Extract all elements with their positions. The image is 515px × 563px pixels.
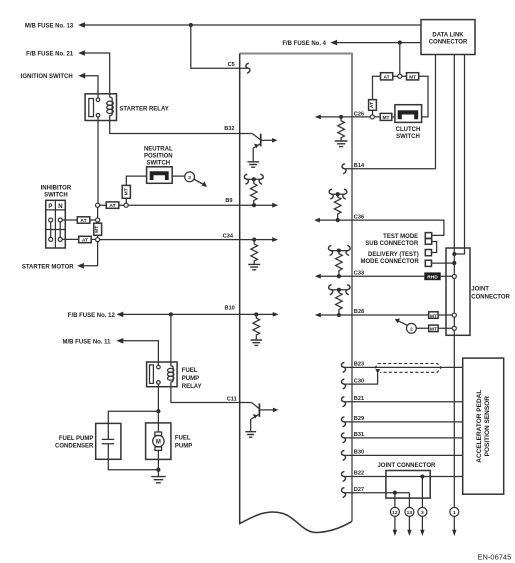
- arrow C34 into ECM: [254, 239, 272, 241]
- svg-text:M/B FUSE No. 13: M/B FUSE No. 13: [25, 23, 74, 29]
- junction on B9 wire: [252, 203, 256, 207]
- wire B14 from ECM to DLC: [344, 168, 436, 170]
- wire C26 from ECM to clutch switch: [352, 116, 395, 118]
- starter relay box: [85, 94, 116, 121]
- svg-text:TEST MODE: TEST MODE: [383, 234, 418, 240]
- internal rail hooks (C33): [328, 246, 332, 256]
- AT box (vertical): [369, 100, 377, 111]
- svg-text:MT: MT: [94, 226, 100, 233]
- DLC pin wire to B14: [435, 55, 437, 169]
- svg-text:SWITCH: SWITCH: [396, 134, 420, 140]
- starter relay pin bottom: [96, 114, 100, 118]
- resistor (B9 pull-up): [251, 179, 258, 205]
- AT box on B9 wire: [106, 202, 119, 208]
- wire D27 junction to circle 12: [394, 493, 396, 508]
- condenser capacitor: [102, 423, 115, 459]
- trunk node circle (C34): [96, 238, 100, 242]
- svg-text:MT: MT: [430, 313, 437, 319]
- arrow IGNITION SWITCH: [78, 73, 85, 79]
- resistor (C26 pull-down): [338, 117, 345, 141]
- junction on rail (B9): [252, 177, 256, 181]
- arrow M/B FUSE No.11: [117, 338, 124, 344]
- wire fuel pump bottom to ground: [157, 459, 159, 476]
- MT box (circled 2): [429, 325, 438, 332]
- wire B30 to sensor: [343, 454, 462, 456]
- node circle between AT and MT: [398, 74, 402, 78]
- wire M/B FUSE No.11 to fuel pump relay: [123, 341, 158, 365]
- node circle on B9 wire below MT: [124, 203, 128, 207]
- wire trunk down to starter motor: [84, 242, 98, 266]
- svg-text:B22: B22: [354, 471, 364, 477]
- svg-text:B30: B30: [354, 450, 364, 456]
- svg-text:MODE CONNECTOR: MODE CONNECTOR: [360, 259, 419, 265]
- MT box (C26 wire): [380, 113, 392, 120]
- shield drain arrow: [375, 369, 380, 374]
- arrow C36 (points left): [314, 218, 320, 223]
- junction D27 in joint connector: [393, 491, 397, 495]
- joint connector box (right): [446, 248, 470, 335]
- circled 2 (B28 ref): [407, 323, 417, 333]
- junction on B28 wire: [337, 313, 341, 317]
- wire B31 to sensor: [343, 437, 462, 439]
- svg-text:DATA LINK: DATA LINK: [432, 32, 464, 38]
- svg-text:AT: AT: [384, 75, 390, 81]
- wire fuse12 junction to fuel pump relay coil: [170, 314, 172, 362]
- svg-text:B9: B9: [225, 198, 232, 204]
- svg-text:NEUTRAL: NEUTRAL: [144, 146, 173, 152]
- wire N bottom to AT box: [62, 238, 78, 240]
- svg-text:2: 2: [188, 175, 191, 181]
- svg-text:B31: B31: [354, 432, 364, 438]
- ground (C34): [248, 264, 260, 269]
- svg-text:P: P: [48, 204, 52, 210]
- svg-text:D27: D27: [354, 487, 364, 493]
- wire B9 from trunk to ECM: [100, 204, 255, 206]
- starter relay contact bar: [89, 99, 94, 117]
- wire fuel pump relay contact down: [157, 384, 159, 423]
- wire junction down to AT/MT node: [399, 43, 401, 75]
- starter relay pin top: [96, 98, 100, 102]
- svg-text:PUMP: PUMP: [175, 443, 192, 449]
- svg-text:POSITION: POSITION: [144, 153, 173, 159]
- delivery mode connector pins: [425, 250, 431, 256]
- junction on C26 wire: [339, 115, 343, 119]
- svg-text:RHD: RHD: [427, 275, 438, 281]
- svg-text:C11: C11: [227, 396, 237, 402]
- fuel pump motor: [157, 423, 159, 432]
- wire condenser branch: [108, 411, 158, 423]
- arrow M/B FUSE No.13: [78, 22, 85, 28]
- ECM module outline (central band): [240, 54, 352, 522]
- starter relay coil: [110, 94, 113, 121]
- junction on F/B4 wire: [398, 41, 402, 45]
- accelerator pedal position sensor box: [463, 358, 504, 494]
- ECM module left edge and bottom wave: [240, 54, 352, 533]
- junction B22 in joint connector: [420, 474, 424, 478]
- wire B22 to sensor: [343, 476, 462, 478]
- wire circled 2 to MT box: [416, 327, 452, 329]
- svg-text:M/B FUSE No. 11: M/B FUSE No. 11: [62, 339, 111, 345]
- internal rail hooks (B9): [244, 174, 248, 184]
- svg-text:AT: AT: [82, 238, 88, 244]
- svg-text:F/B FUSE No. 12: F/B FUSE No. 12: [68, 313, 116, 319]
- fuel pump relay pin top: [157, 365, 161, 369]
- wire neutral switch right to circle 2: [172, 175, 184, 177]
- wire F/B FUSE No.21 to starter relay coil: [85, 53, 110, 94]
- svg-text:AT: AT: [369, 102, 375, 108]
- svg-text:FUEL: FUEL: [182, 368, 198, 374]
- DLC pin wire (joint connector 2): [454, 55, 464, 255]
- ground (B32 transistor): [247, 162, 259, 167]
- junction fuel pump / condenser: [156, 468, 160, 472]
- resistor (C34 pull-down): [251, 240, 258, 265]
- wire neutral switch left to MT box: [126, 176, 146, 185]
- wire B21 to sensor: [343, 401, 462, 403]
- svg-text:1: 1: [453, 510, 456, 516]
- wire B32 from relay coil to ECM: [110, 121, 253, 134]
- wire C30 to shield: [343, 373, 377, 384]
- arrow B9 into ECM: [254, 204, 273, 206]
- circled 13: [405, 507, 414, 516]
- trunk segment: [97, 207, 99, 223]
- MT box on trunk: [94, 223, 102, 235]
- wire D27 to joint connector: [343, 492, 409, 494]
- node circle B28 at joint connector: [452, 313, 456, 317]
- node circle MT2 at joint connector: [452, 326, 456, 330]
- svg-text:N: N: [58, 204, 62, 210]
- arrow C26 (points left): [315, 115, 321, 120]
- wire AT box to trunk C34 node: [91, 238, 96, 240]
- pin hooks B23,C30,B21,B29,B31,B30,B22,D27: [341, 362, 345, 372]
- circled 1: [450, 507, 459, 516]
- circled 12: [390, 507, 399, 516]
- data link connector box: [421, 20, 475, 55]
- junction to condenser: [156, 409, 160, 413]
- svg-text:CONNECTOR: CONNECTOR: [471, 294, 510, 300]
- svg-text:B10: B10: [225, 306, 235, 312]
- inhibitor switch box: [46, 200, 66, 248]
- arrow B28 (points left): [315, 313, 321, 318]
- svg-text:STARTER MOTOR: STARTER MOTOR: [22, 264, 74, 270]
- wire B23 to accelerator pedal position sensor: [343, 366, 462, 368]
- wire C5 branch: [191, 25, 248, 68]
- svg-text:DELIVERY (TEST): DELIVERY (TEST): [368, 252, 419, 258]
- circled 3: [418, 507, 427, 516]
- wire ignition switch to starter relay contact: [85, 76, 98, 98]
- svg-text:13: 13: [407, 510, 413, 516]
- junction on C34 wire: [252, 238, 256, 242]
- arrow STARTER MOTOR: [77, 263, 84, 269]
- svg-text:B32: B32: [224, 126, 234, 132]
- svg-text:ACCELERATOR PEDAL: ACCELERATOR PEDAL: [476, 390, 483, 463]
- arrow from circled 2 up-left: [398, 321, 408, 326]
- fuel pump relay pin bottom: [157, 381, 161, 385]
- junction on C36 wire: [336, 218, 340, 222]
- wire C34 from trunk to ECM: [100, 239, 255, 241]
- svg-text:SWITCH: SWITCH: [44, 192, 68, 198]
- wire B22 junction to circle 3: [421, 477, 423, 508]
- fuel pump relay box: [147, 362, 178, 387]
- svg-text:2: 2: [410, 327, 413, 333]
- svg-text:CLUTCH: CLUTCH: [396, 127, 421, 133]
- trunk node circle (AT top): [96, 218, 100, 222]
- junction on B10 wire: [254, 312, 258, 316]
- shield (dashed) around B23 wire: [375, 364, 441, 373]
- pin hook C5: [246, 63, 250, 73]
- arrow F/B FUSE No.21: [78, 50, 85, 56]
- internal rail hooks (B28): [329, 285, 333, 295]
- MT box (neutral switch leg): [122, 185, 130, 198]
- svg-text:MT: MT: [409, 75, 416, 81]
- clutch switch box: [395, 105, 422, 123]
- svg-text:JOINT: JOINT: [471, 287, 489, 293]
- wire C11 from relay coil to ECM: [171, 387, 252, 403]
- svg-text:B28: B28: [354, 309, 364, 315]
- svg-text:F/B FUSE No. 21: F/B FUSE No. 21: [26, 51, 74, 57]
- svg-text:MT: MT: [430, 327, 437, 333]
- wire B28 to MT box and joint connector: [352, 314, 452, 316]
- junction DLC pins inside joint connector: [452, 252, 456, 256]
- trunk node circle (ignition trunk / B9): [96, 203, 100, 207]
- RHD box on C33 wire: [424, 272, 440, 280]
- fuel pump box: [146, 423, 171, 460]
- AT box (clutch top row): [381, 73, 393, 80]
- svg-text:SWITCH: SWITCH: [146, 160, 170, 166]
- arrow C33 (points left): [315, 274, 321, 279]
- wire C33 to joint connector: [352, 275, 452, 277]
- transistor B32: [252, 134, 261, 140]
- fuel pump relay coil: [171, 362, 173, 387]
- arrow B10 into ECM: [256, 313, 273, 315]
- svg-text:AT: AT: [109, 203, 115, 209]
- AT box (N top): [77, 217, 90, 223]
- arrow F/B FUSE No.4: [330, 40, 337, 46]
- fuel pump condenser box: [96, 423, 121, 459]
- svg-text:CONDENSER: CONDENSER: [55, 444, 94, 450]
- svg-text:F/B FUSE No. 4: F/B FUSE No. 4: [282, 41, 326, 47]
- wire AT vertical to C26 node: [372, 110, 374, 115]
- pin hook B14: [342, 164, 346, 174]
- wire D27 to circle 13: [408, 493, 410, 508]
- wire condenser bottom: [108, 459, 158, 469]
- resistor (B28 pull-up): [336, 290, 343, 315]
- internal rail hooks (C36): [329, 189, 333, 199]
- ground (B10): [251, 340, 262, 345]
- svg-text:FUEL: FUEL: [175, 436, 191, 442]
- ground (fuel pump): [151, 477, 165, 483]
- resistor (C33 pull-up): [336, 251, 343, 277]
- svg-text:EN-06745: EN-06745: [478, 553, 512, 562]
- svg-text:12: 12: [392, 510, 398, 516]
- node circle on C26 wire: [370, 115, 374, 119]
- MT box (B28): [429, 312, 438, 319]
- junction on C33 wire: [337, 274, 341, 278]
- svg-text:M: M: [156, 440, 161, 446]
- inhibitor switch contacts N: [58, 218, 62, 222]
- svg-text:RELAY: RELAY: [182, 384, 202, 390]
- inhibitor switch contacts P: [49, 218, 53, 222]
- DLC pin wire (joint connector 1): [453, 55, 455, 508]
- svg-text:AT: AT: [80, 218, 86, 224]
- resistor (B10 pull-down): [253, 314, 260, 339]
- wire AT to vertical AT box: [373, 76, 381, 99]
- wire N top to AT box: [62, 219, 77, 221]
- svg-text:STARTER RELAY: STARTER RELAY: [119, 107, 168, 113]
- AT box (N bottom): [79, 236, 92, 242]
- circled 2 (neutral switch ref): [185, 172, 195, 182]
- svg-text:3: 3: [421, 510, 424, 516]
- wire MT box to B9 node: [125, 198, 127, 203]
- node circle C33 at joint connector: [452, 274, 456, 278]
- fuel pump relay contact bar: [150, 365, 154, 384]
- MT box (clutch top row): [407, 73, 419, 80]
- svg-text:INHIBITOR: INHIBITOR: [41, 186, 72, 192]
- neutral position switch contact: [150, 171, 169, 180]
- svg-text:POSITION SENSOR: POSITION SENSOR: [484, 396, 491, 457]
- wire trunk from relay contact down: [97, 117, 99, 203]
- svg-text:PUMP: PUMP: [182, 376, 199, 382]
- resistor (C36 pull-up): [334, 194, 341, 220]
- svg-text:IGNITION SWITCH: IGNITION SWITCH: [21, 74, 73, 80]
- svg-text:C33: C33: [354, 270, 364, 276]
- wire B29 to sensor: [343, 421, 462, 423]
- svg-text:MT: MT: [382, 115, 389, 121]
- clutch switch contact: [398, 110, 419, 119]
- svg-text:CONNECTOR: CONNECTOR: [429, 40, 468, 46]
- transistor C11: [252, 403, 260, 409]
- arrow from circled 2 down-right: [194, 179, 204, 184]
- node junction on M/B fuse 13 wire: [189, 23, 193, 27]
- test mode sub connector pins: [425, 233, 431, 239]
- ground (C26): [335, 141, 348, 147]
- svg-text:JOINT CONNECTOR: JOINT CONNECTOR: [377, 463, 436, 469]
- jumper box2 to box3: [432, 242, 437, 253]
- svg-text:MT: MT: [124, 188, 130, 195]
- svg-text:SUB CONNECTOR: SUB CONNECTOR: [365, 241, 419, 247]
- wire F/B FUSE No.12 / B10: [123, 313, 256, 315]
- bottom arrows: [394, 516, 396, 530]
- trunk segment below MT: [97, 235, 99, 237]
- svg-text:B29: B29: [354, 416, 364, 422]
- arrow F/B FUSE No.12: [117, 312, 124, 318]
- wire F/B FUSE No.4 to DLC: [337, 42, 421, 44]
- ground (C11 transistor): [245, 432, 256, 438]
- wire C36 to test mode sub connector: [352, 220, 444, 235]
- svg-text:C34: C34: [223, 234, 234, 240]
- wire AT box to trunk node: [90, 219, 96, 221]
- joint connector box (bottom): [386, 471, 430, 499]
- junction on B10 wire: [169, 312, 173, 316]
- svg-text:C5: C5: [228, 62, 235, 68]
- neutral position switch box: [147, 167, 173, 184]
- wire M/B FUSE No.13 feed: [85, 24, 421, 26]
- svg-text:FUEL PUMP: FUEL PUMP: [59, 436, 94, 442]
- wire MT row to clutch switch right: [419, 76, 428, 117]
- wire delivery pin to joint connector: [432, 262, 455, 264]
